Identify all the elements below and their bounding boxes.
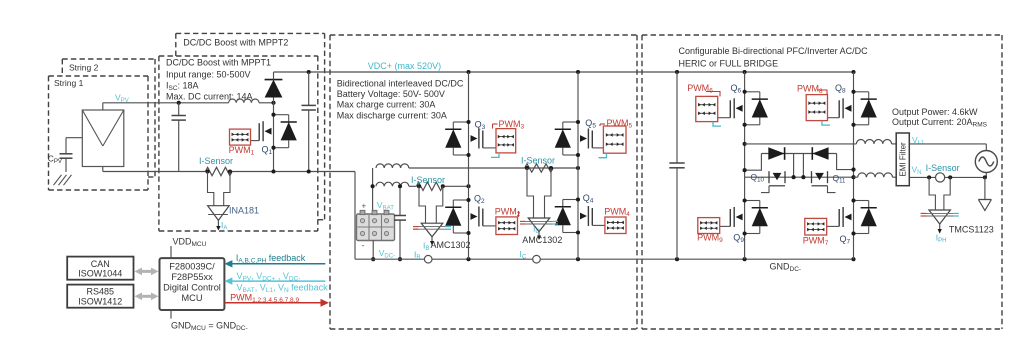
svg-text:VDC+ (max 520V): VDC+ (max 520V) (368, 61, 441, 71)
svg-text:AMC1302: AMC1302 (431, 240, 471, 250)
svg-text:HERIC or FULL BRIDGE: HERIC or FULL BRIDGE (679, 59, 779, 69)
svg-text:Digital Control: Digital Control (163, 282, 221, 292)
svg-text:ISOW1044: ISOW1044 (78, 269, 122, 279)
svg-text:F28P55xx: F28P55xx (171, 272, 213, 282)
svg-text:Bidirectional interleaved DC/D: Bidirectional interleaved DC/DC (337, 78, 464, 88)
svg-text:EMI Filter: EMI Filter (898, 142, 907, 177)
svg-text:String 2: String 2 (69, 63, 99, 73)
svg-text:+: + (362, 202, 367, 211)
svg-text:Input range: 50-500V: Input range: 50-500V (166, 69, 251, 79)
svg-text:DC/DC Boost with MPPT2: DC/DC Boost with MPPT2 (183, 37, 288, 47)
svg-text:CAN: CAN (91, 259, 110, 269)
svg-text:Output Power: 4.6kW: Output Power: 4.6kW (892, 107, 978, 117)
svg-text:String 1: String 1 (54, 78, 84, 88)
svg-text:Max discharge current: 30A: Max discharge current: 30A (337, 110, 447, 120)
svg-text:Battery Voltage: 50V- 500V: Battery Voltage: 50V- 500V (337, 89, 445, 99)
svg-text:MCU: MCU (182, 293, 203, 303)
svg-text:RS485: RS485 (87, 287, 115, 297)
svg-text:ISOW1412: ISOW1412 (78, 296, 122, 306)
svg-text:F280039C/: F280039C/ (169, 262, 215, 272)
svg-text:I-Sensor: I-Sensor (926, 163, 960, 173)
svg-text:Max charge current: 30A: Max charge current: 30A (337, 100, 436, 110)
svg-text:I-Sensor: I-Sensor (521, 155, 555, 165)
svg-text:I-Sensor: I-Sensor (411, 175, 445, 185)
svg-text:INA181: INA181 (229, 206, 259, 216)
svg-text:DC/DC Boost with MPPT1: DC/DC Boost with MPPT1 (166, 57, 271, 67)
svg-text:TMCS1123: TMCS1123 (949, 225, 994, 235)
svg-text:Configurable Bi-directional PF: Configurable Bi-directional PFC/Inverter… (679, 46, 869, 56)
svg-text:-: - (362, 241, 365, 251)
svg-text:I-Sensor: I-Sensor (199, 156, 233, 166)
svg-text:Max. DC current: 14A: Max. DC current: 14A (166, 91, 253, 101)
svg-text:AMC1302: AMC1302 (522, 235, 562, 245)
